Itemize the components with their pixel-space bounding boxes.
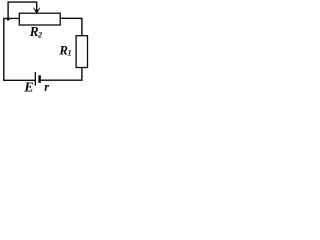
- wire bottom right (battery to right corner): [40, 68, 82, 81]
- resistor R2 (rheostat body): [19, 13, 60, 25]
- junction dot (node): [7, 18, 10, 21]
- battery cell E: short thick plate: [38, 75, 41, 83]
- wire left vertical (main loop): [4, 18, 19, 80]
- battery cell E: long plate: [34, 72, 36, 86]
- svg-text:E: E: [23, 80, 33, 94]
- wire top (wiper loop horizontal): [8, 2, 37, 18]
- svg-text:r: r: [44, 80, 49, 94]
- resistor R1: [76, 36, 87, 68]
- arrowhead of wiper: [34, 8, 40, 14]
- wire right upper (R2 to R1): [60, 18, 82, 35]
- wire bottom left (to battery long plate): [4, 79, 36, 81]
